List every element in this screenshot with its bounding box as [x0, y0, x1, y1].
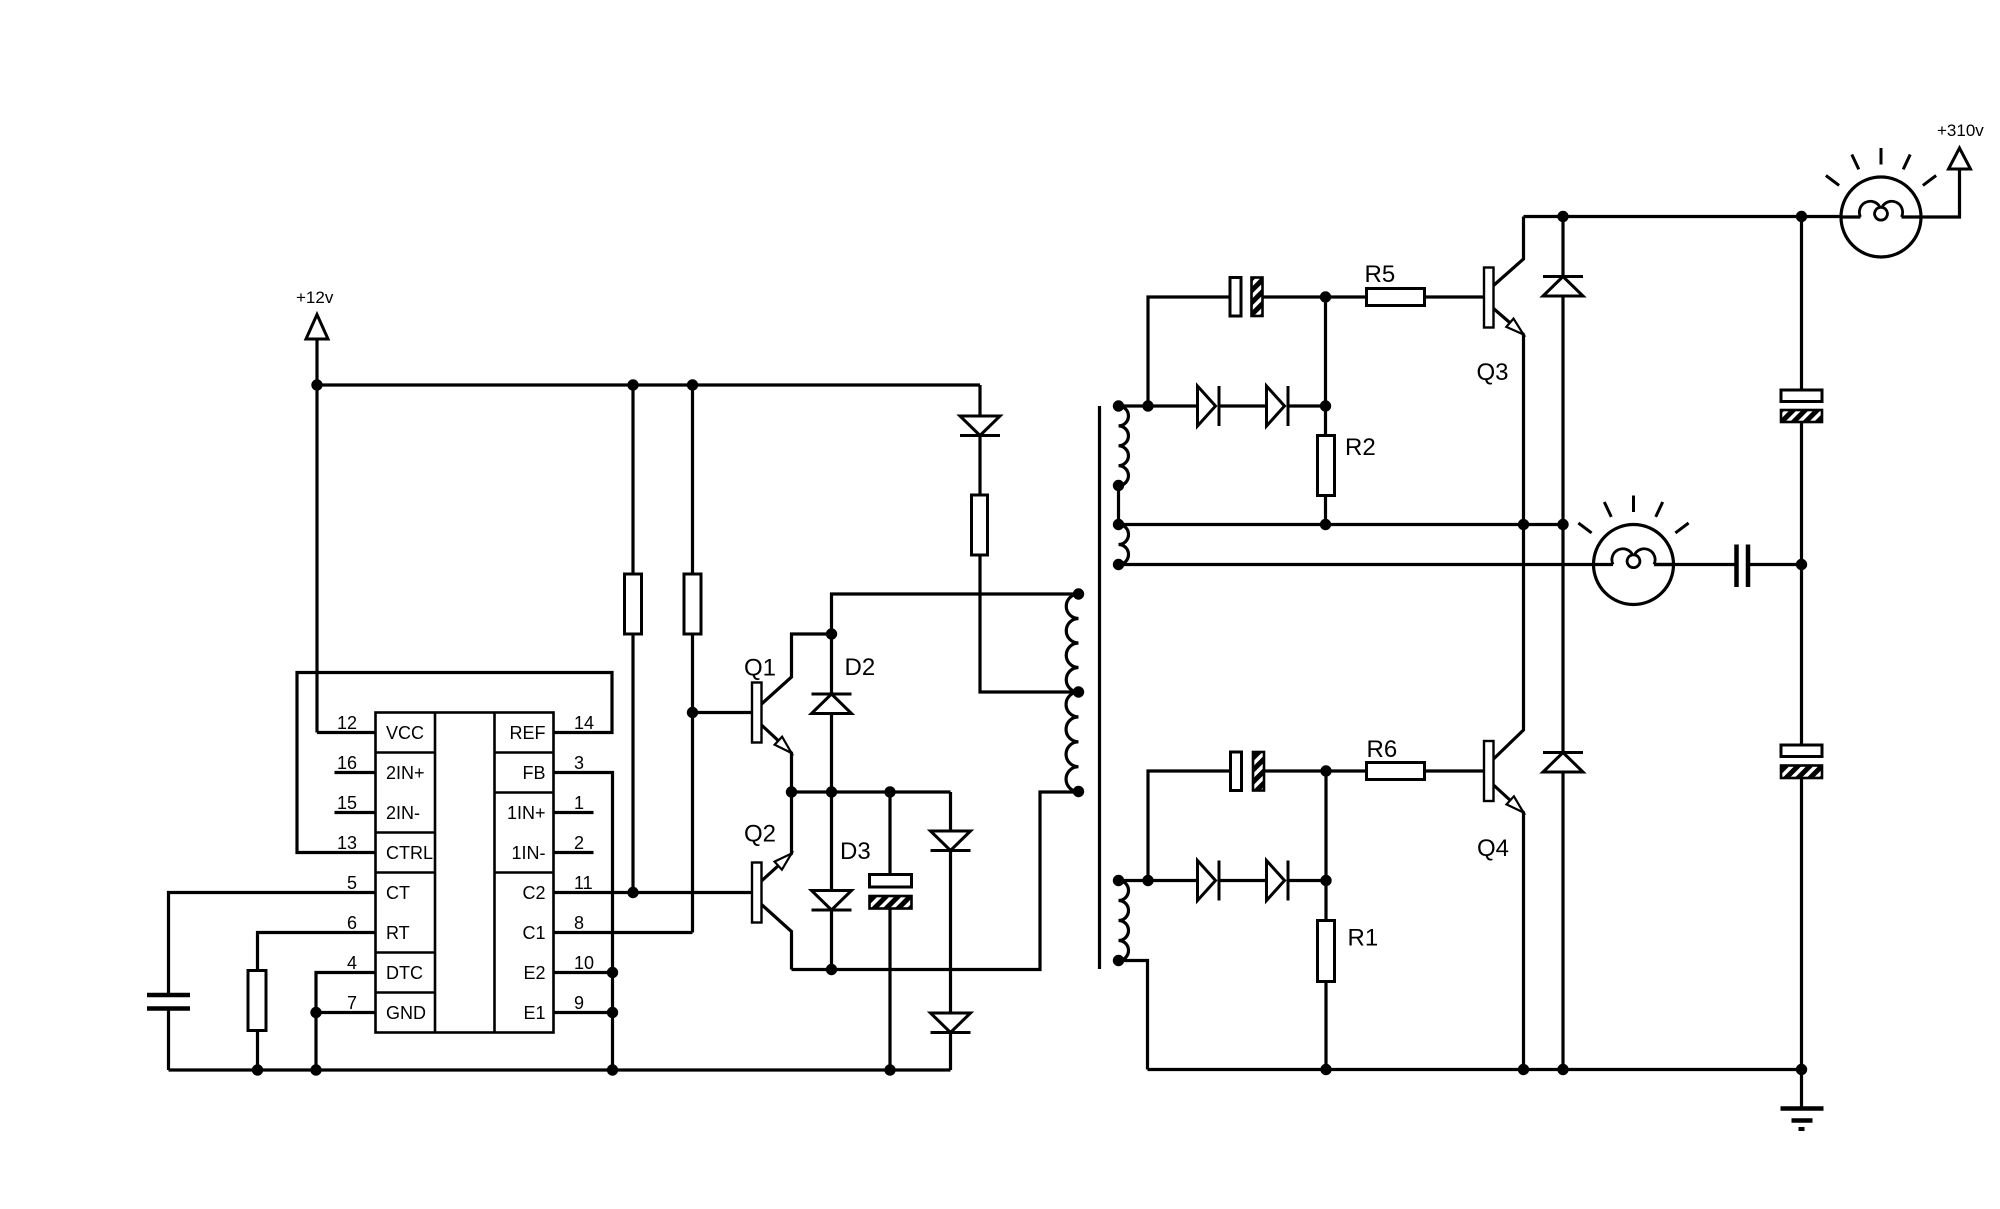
junction D11 ground [1557, 1064, 1568, 1075]
svg-text:15: 15 [337, 793, 357, 813]
svg-text:4: 4 [347, 953, 357, 973]
ground bar 2 [1792, 1118, 1813, 1123]
transistor Q4 emitter [1494, 785, 1524, 1070]
wire lower winding row [1119, 879, 1198, 882]
wire C2 to right rail [1748, 563, 1802, 566]
wire rail to resistor R4 [691, 385, 694, 574]
svg-text:VCC: VCC [386, 723, 424, 743]
svg-text:D2: D2 [845, 654, 876, 681]
transistor Q4 base bar [1484, 741, 1494, 801]
wire E2 pin10 [554, 971, 613, 974]
wire CT pin5 to timing capacitor [169, 893, 376, 994]
junction Q1/Q2 emitters [786, 786, 797, 797]
wire C2 pin11 to Q2 base [554, 891, 753, 894]
resistor R7 [972, 495, 988, 555]
junction lower winding top [1113, 875, 1124, 886]
resistor R3 [625, 574, 642, 634]
capacitor C1 plate left [1230, 278, 1241, 317]
diode D6 [1198, 386, 1216, 426]
wire D6 to D7 [1219, 404, 1267, 407]
svg-text:8: 8 [574, 913, 584, 933]
wire primary top to D2 column [832, 594, 1079, 634]
junction +12v rail [311, 379, 322, 390]
svg-text:7: 7 [347, 993, 357, 1013]
junction R2 bottom [1320, 519, 1331, 530]
capacitor C6 plate top [1781, 745, 1822, 757]
capacitor C4 plate top [1781, 390, 1822, 402]
wire R6 to Q4 base [1425, 769, 1485, 772]
junction rail R3 [627, 379, 638, 390]
svg-text:R2: R2 [1345, 434, 1376, 461]
junction primary bottom [1073, 786, 1084, 797]
wire right rail bottom section [1800, 778, 1803, 1070]
junction D2 anode row [826, 786, 837, 797]
resistor R6 [1367, 763, 1425, 780]
svg-text:2: 2 [574, 833, 584, 853]
transformer T1 primary winding upper [1066, 594, 1078, 692]
wire Q2 collector row to transformer [792, 792, 1079, 970]
junction C5 ground [884, 1064, 895, 1075]
junction C2 / R3 [627, 887, 638, 898]
wire C1 pin8 [554, 931, 693, 934]
junction lamp winding top [1113, 519, 1124, 530]
wire REF pin14 to CTRL pin13 loop [297, 673, 612, 853]
svg-text:D3: D3 [840, 838, 871, 865]
pin 15 stub [335, 811, 376, 814]
ground stub [1800, 1070, 1803, 1108]
transistor Q2 base bar [752, 863, 762, 923]
capacitor C-timing plate top [147, 993, 190, 998]
resistor R-timing [248, 971, 266, 1031]
svg-text:Q3: Q3 [1477, 359, 1509, 386]
wire node to R5 [1326, 295, 1367, 298]
wire FB pin3 to ground column [554, 773, 613, 1071]
resistor R4 [684, 574, 701, 634]
wire R3 to C2 line [631, 634, 634, 893]
svg-text:6: 6 [347, 913, 357, 933]
svg-text:CT: CT [386, 883, 410, 903]
transistor Q3 base bar [1484, 268, 1494, 328]
junction FB/E1 [607, 1007, 618, 1018]
transistor Q4 collector [1494, 525, 1524, 760]
svg-text:FB: FB [522, 763, 545, 783]
junction right rail ground [1796, 1064, 1807, 1075]
junction R-timing ground [252, 1064, 263, 1075]
lamp LP2 [1594, 525, 1674, 605]
junction snubber cap row [884, 786, 895, 797]
capacitor C4 plate bottom hatched [1781, 410, 1822, 422]
wire D7 to R2 node [1288, 404, 1326, 407]
wire pin 12 to IC [317, 731, 376, 734]
wire D4 to D5 [949, 851, 952, 1014]
svg-text:E2: E2 [523, 963, 545, 983]
svg-text:+310v: +310v [1937, 121, 1984, 140]
wire Q1 base [693, 711, 753, 714]
wire D9 to D10 [1219, 879, 1267, 882]
svg-text:12: 12 [337, 713, 357, 733]
wire winding link [1117, 486, 1120, 525]
wire +12v rail [317, 383, 980, 386]
wire lamp row [1119, 563, 1614, 566]
junction rail R4 [687, 379, 698, 390]
pin 1 stub [554, 811, 594, 814]
wire GND pin7 [316, 1011, 376, 1014]
junction Q1 collector / D2 [826, 628, 837, 639]
svg-text:Q1: Q1 [744, 655, 776, 682]
junction R4 / Q1 base / C1 [687, 707, 698, 718]
junction emitter row / D8 [1557, 519, 1568, 530]
wire ground rail right [1148, 1068, 1802, 1071]
capacitor C2 plate left [1734, 545, 1739, 588]
capacitor C5 wire bottom [888, 909, 891, 1071]
svg-text:CTRL: CTRL [386, 843, 433, 863]
wire diode pair column top [949, 792, 952, 831]
power +310v arrow [1949, 148, 1971, 169]
transistor Q1 emitter [762, 725, 792, 792]
junction right rail lamp row [1796, 559, 1807, 570]
transformer T1 core [1098, 406, 1101, 969]
ground bar 1 [1781, 1106, 1824, 1111]
junction FB/E2 [607, 967, 618, 978]
capacitor C5 wire top [888, 792, 891, 875]
wire emitter junction row [792, 790, 951, 793]
wire ground rail left [169, 1068, 951, 1071]
transformer T1 lamp winding upper [1119, 525, 1129, 565]
svg-text:11: 11 [574, 873, 593, 893]
wire R7 to centre tap [980, 555, 1079, 692]
wire Q3 emitter row [1119, 523, 1564, 526]
svg-text:E1: E1 [523, 1003, 545, 1023]
junction D3 row [826, 964, 837, 975]
wire HV top rail [1524, 215, 1841, 218]
transistor Q1 base bar [752, 683, 762, 743]
svg-text:C2: C2 [522, 883, 545, 903]
svg-text:2IN-: 2IN- [386, 803, 420, 823]
transformer T1 primary winding lower [1066, 692, 1078, 792]
junction GND column ground [310, 1064, 321, 1075]
pin 16 stub [335, 771, 376, 774]
wire D8 cathode [1561, 217, 1564, 277]
svg-text:R5: R5 [1365, 261, 1396, 288]
diode D8 [1543, 275, 1583, 278]
diode D5 [931, 1013, 971, 1033]
capacitor C5 plate bottom hatched [870, 896, 912, 909]
transformer T1 drive winding lower [1119, 881, 1129, 961]
wire D3 cathode [830, 910, 833, 970]
diode D9 [1198, 861, 1216, 901]
wire lamp LP2 to C2 [1654, 563, 1737, 566]
wire +12v arrow to rail [315, 339, 318, 385]
resistor R2 [1318, 436, 1335, 496]
wire D11 cathode [1561, 525, 1564, 753]
svg-text:5: 5 [347, 873, 357, 893]
svg-text:DTC: DTC [386, 963, 423, 983]
wire D2 cathode [830, 634, 833, 694]
transistor Q3 collector [1494, 217, 1524, 286]
junction cap branch bottom [1142, 875, 1153, 886]
wire D11 anode [1561, 772, 1564, 1070]
wire D10 to R1 node [1288, 879, 1326, 882]
diode D1 [960, 416, 1000, 436]
wire C3 to R6 node [1264, 769, 1326, 772]
lamp LP1 [1841, 177, 1921, 257]
junction primary top [1073, 588, 1084, 599]
ground bar 3 [1799, 1127, 1805, 1131]
svg-text:+12v: +12v [296, 288, 334, 307]
svg-text:GND: GND [386, 1003, 426, 1023]
transistor Q2 collector [762, 905, 792, 970]
wire right rail mid section [1800, 422, 1803, 745]
wire R2 column [1324, 297, 1327, 436]
wire R5 to Q3 base [1425, 295, 1485, 298]
diode D7 [1267, 386, 1285, 426]
diode D3 [812, 891, 852, 911]
wire DTC pin4 down to GND wire [316, 973, 376, 1071]
diode D11 [1543, 751, 1583, 754]
svg-text:10: 10 [574, 953, 594, 973]
capacitor C3 plate right hatched [1253, 752, 1264, 791]
power +12v arrow [306, 315, 328, 340]
diode D10 [1267, 861, 1285, 901]
transformer T1 feedback winding upper [1119, 406, 1129, 486]
capacitor C1 plate right hatched [1252, 278, 1263, 317]
capacitor C5 plate top [870, 875, 912, 888]
wire snubber cap branch Q3 [1148, 297, 1230, 406]
wire R4 down to C1 line [691, 634, 694, 933]
transistor Q3 emitter [1494, 309, 1524, 525]
svg-text:1IN-: 1IN- [511, 843, 545, 863]
capacitor C2 plate right [1746, 545, 1751, 588]
svg-text:14: 14 [574, 713, 594, 733]
wire C1 to R5 node [1263, 295, 1326, 298]
wire R2 to emitter row [1324, 496, 1327, 525]
svg-text:REF: REF [510, 723, 546, 743]
wire R1 to ground rail [1324, 982, 1327, 1070]
junction primary centre tap [1073, 686, 1084, 697]
junction R1 ground [1320, 1064, 1331, 1075]
svg-text:Q4: Q4 [1477, 835, 1509, 862]
op-amp U1 IC body [376, 713, 554, 1033]
svg-text:Q2: Q2 [744, 821, 776, 848]
wire rail to resistor R3 [631, 385, 634, 574]
wire RT pin6 to timing resistor [258, 933, 376, 971]
resistor R5 [1367, 289, 1425, 306]
junction winding link [1113, 480, 1124, 491]
diode D2 [812, 693, 852, 696]
junction C1/R5/R2 [1320, 291, 1331, 302]
svg-text:2IN+: 2IN+ [386, 763, 425, 783]
junction DTC/GND [310, 1007, 321, 1018]
wire D2 anode [830, 714, 833, 793]
junction Q4 emitter ground [1518, 1064, 1529, 1075]
svg-text:C1: C1 [522, 923, 545, 943]
wire C-timing to ground rail [167, 1011, 170, 1071]
junction right rail top [1796, 211, 1807, 222]
svg-text:13: 13 [337, 833, 357, 853]
resistor R1 [1318, 921, 1335, 982]
wire E1 pin9 [554, 1011, 613, 1014]
capacitor C6 plate bottom hatched [1781, 766, 1822, 779]
transistor Q1 collector [762, 634, 832, 704]
junction cap branch top [1142, 400, 1153, 411]
wire node to R6 [1326, 769, 1367, 772]
svg-text:RT: RT [386, 923, 410, 943]
capacitor C3 plate left [1231, 752, 1242, 791]
wire D1 to R7 [978, 436, 981, 496]
wire R1 column [1324, 771, 1327, 921]
pin 2 stub [554, 851, 594, 854]
junction D8 top [1557, 211, 1568, 222]
wire rail corner to D1 [978, 385, 981, 416]
junction lamp winding bottom [1113, 559, 1124, 570]
wire right rail top section [1800, 217, 1803, 391]
junction diode row / R1 [1320, 875, 1331, 886]
svg-text:R1: R1 [1348, 925, 1379, 952]
svg-text:1: 1 [574, 793, 584, 813]
junction FB column ground [607, 1064, 618, 1075]
svg-text:9: 9 [574, 993, 584, 1013]
svg-text:16: 16 [337, 753, 357, 773]
junction C3/R6/R1 [1320, 765, 1331, 776]
junction secondary top [1113, 400, 1124, 411]
wire lower winding to ground rail [1119, 961, 1148, 1070]
wire lamp LP1 to +310v corner [1921, 169, 1960, 217]
diode D4 [931, 831, 971, 851]
wire +12v feed down to VCC pin 12 [315, 385, 318, 733]
svg-text:R6: R6 [1367, 736, 1398, 763]
wire snubber cap branch Q4 [1148, 771, 1231, 881]
wire D5 to ground rail [949, 1033, 952, 1071]
wire D8 anode [1561, 296, 1564, 525]
transistor Q2 emitter [762, 792, 792, 881]
svg-text:3: 3 [574, 753, 584, 773]
wire R-timing to ground rail [256, 1031, 259, 1071]
junction lower winding bottom [1113, 955, 1124, 966]
junction diode row / R2 [1320, 400, 1331, 411]
wire D3 anode [830, 792, 833, 891]
capacitor C-timing plate bottom [147, 1006, 190, 1011]
svg-text:1IN+: 1IN+ [507, 803, 546, 823]
wire secondary top row [1119, 404, 1198, 407]
junction Q3 emitter / Q4 collector [1518, 519, 1529, 530]
